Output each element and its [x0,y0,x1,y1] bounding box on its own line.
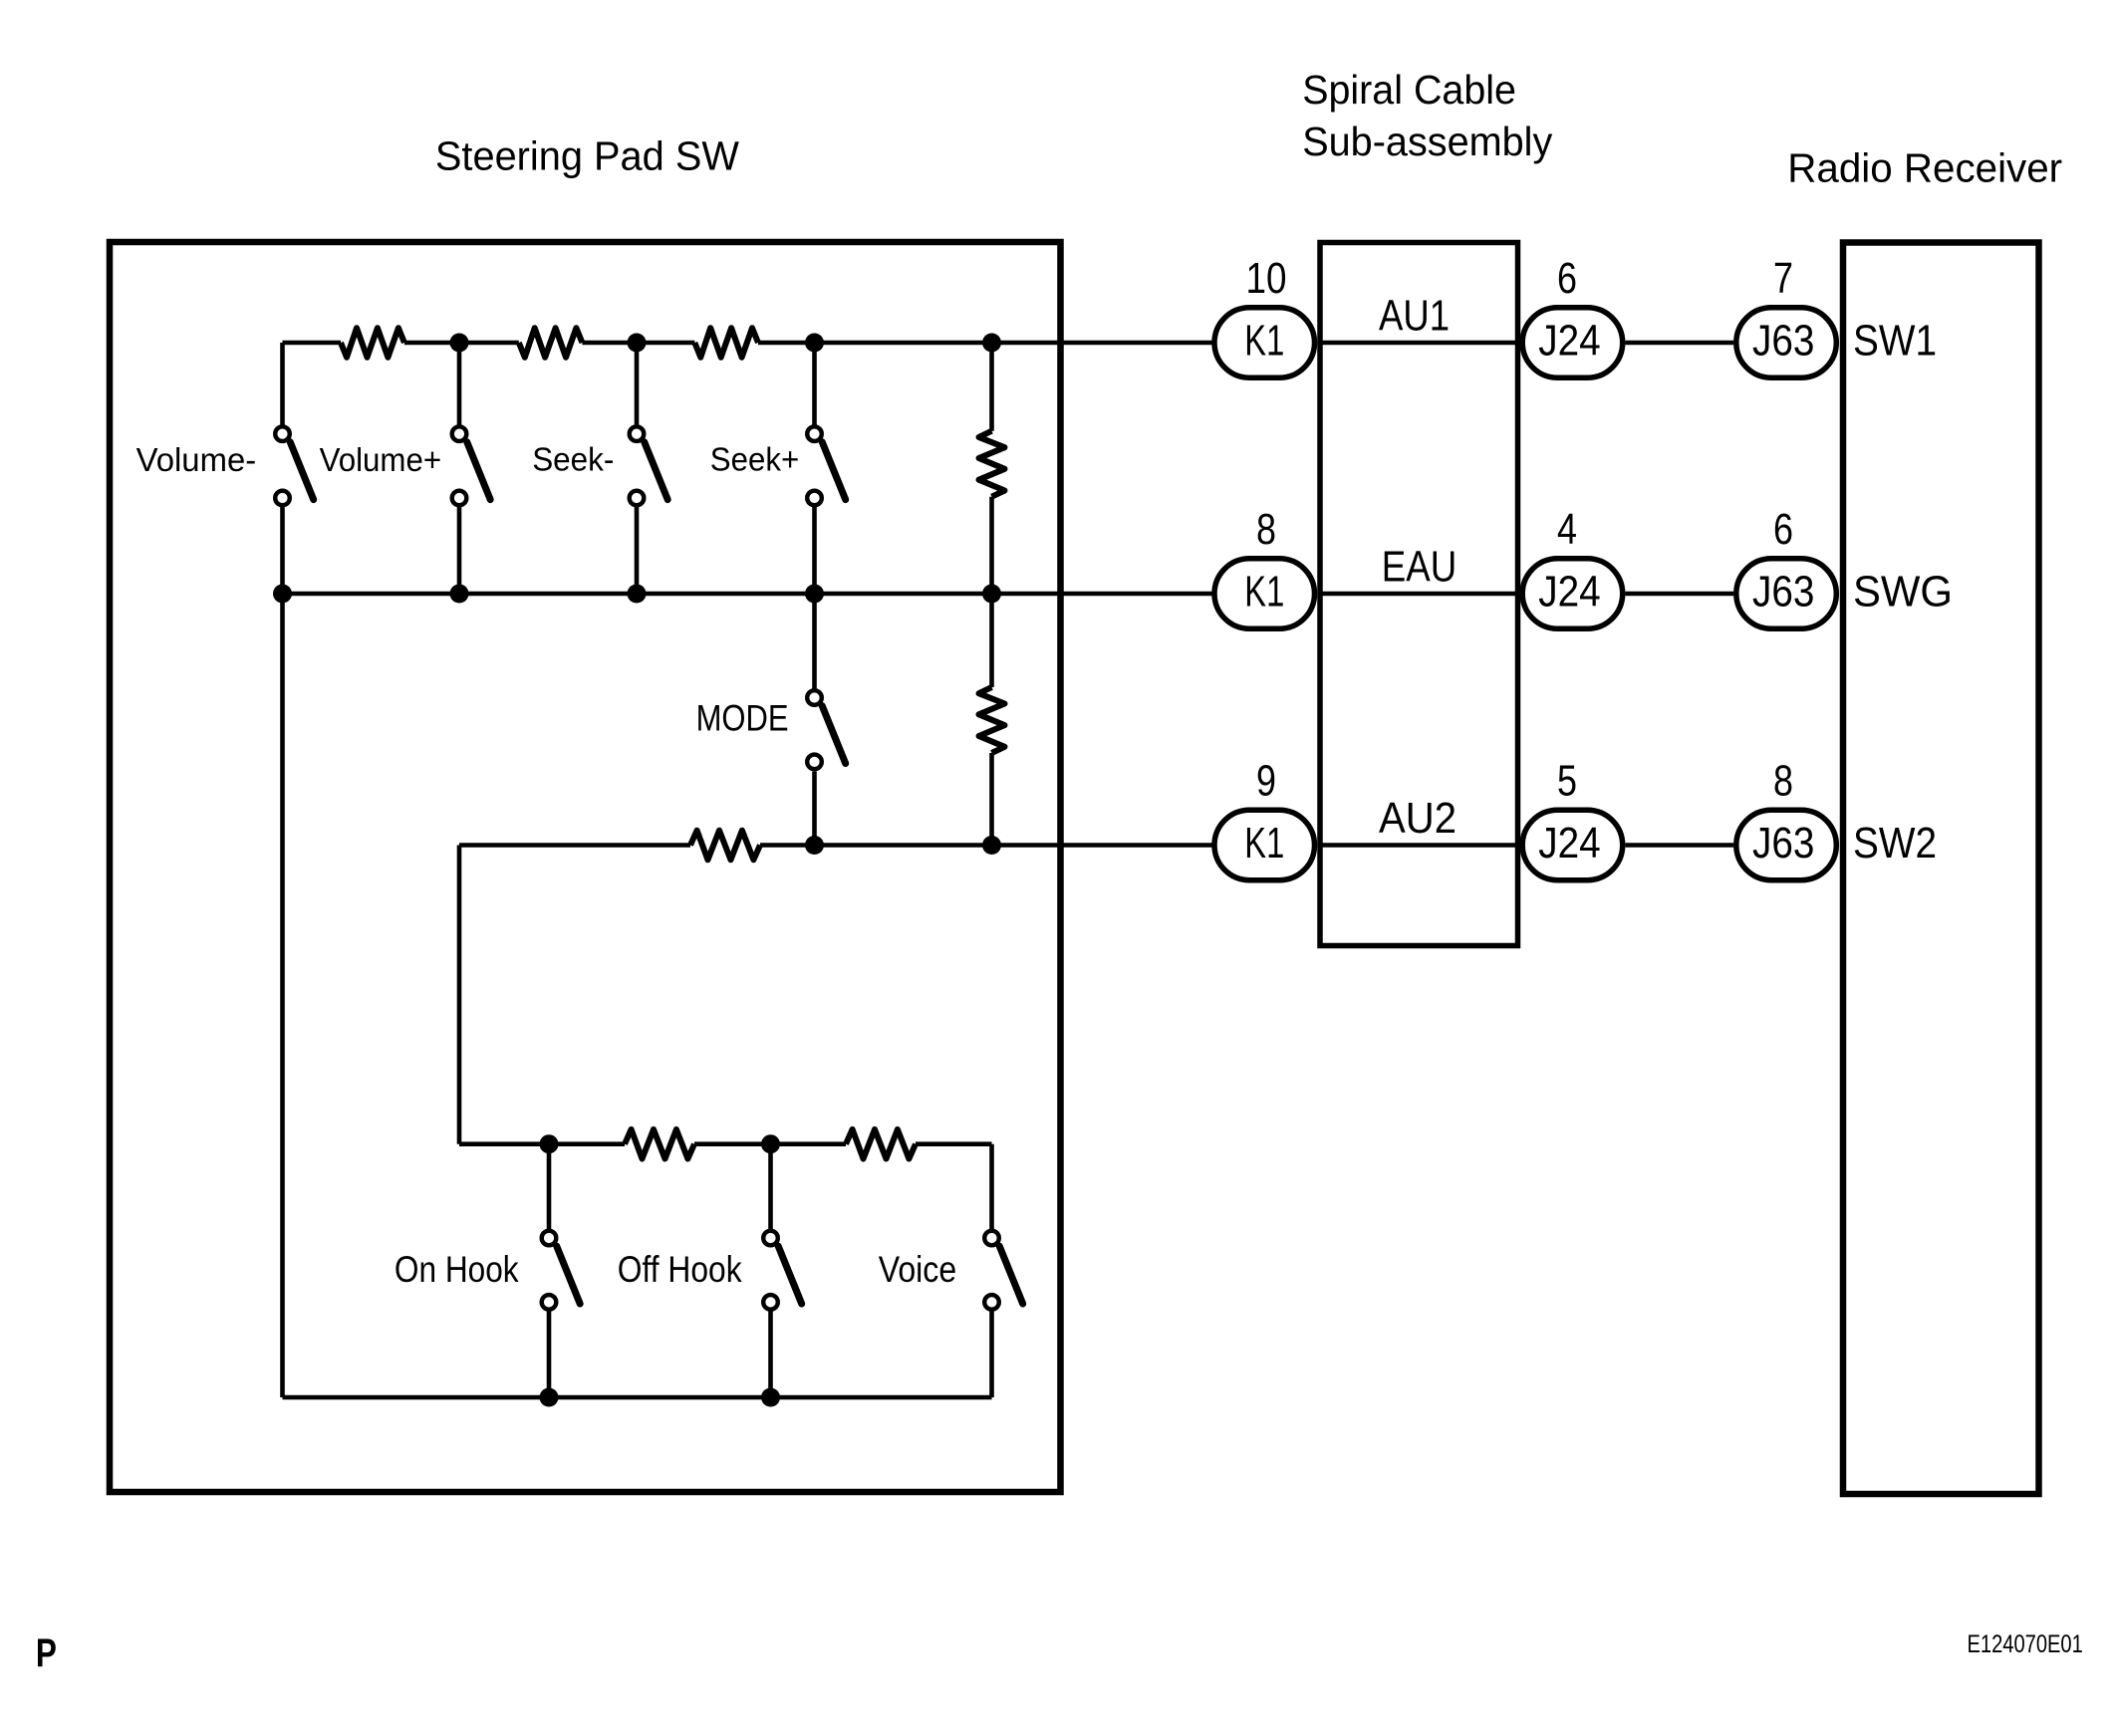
wire AU2 left corner down to hook rail [457,846,462,1144]
connector J24 (AU1) [1522,308,1623,378]
svg-text:Off Hook: Off Hook [618,1248,742,1290]
svg-text:E124070E01: E124070E01 [1968,1630,2083,1658]
svg-text:Seek-: Seek- [532,441,614,478]
svg-text:Volume+: Volume+ [320,441,442,478]
wire hook rail seg 1 [459,1141,625,1146]
svg-text:On Hook: On Hook [395,1248,519,1290]
junction dot bottom rail Off Hook [761,1388,780,1407]
wire MODE branch upper [812,594,817,690]
junction dot EAU rail at Volume- branch [273,585,292,604]
junction dot EAU rail at Seek+ branch [805,585,824,604]
wire bottom rail [283,1395,992,1400]
junction dot AU2 rail at R5 branch [982,836,1001,855]
resistor R3 (Seek- to Seek+ node) [694,328,758,358]
junction dot node Volume+ top [450,334,469,353]
box Spiral Cable Sub-assembly [1320,243,1518,946]
svg-text:4: 4 [1557,506,1577,554]
resistor R8 (Off Hook to Voice) [846,1129,916,1159]
junction dot EAU rail at Volume+ branch [450,585,469,604]
svg-text:10: 10 [1246,255,1287,303]
box Radio Receiver [1843,243,2039,1495]
svg-text:Voice: Voice [879,1248,957,1290]
svg-text:P: P [36,1631,57,1675]
wire AU1 inside spiral box [1322,341,1518,346]
junction dot hook rail On Hook [540,1134,559,1153]
svg-text:SWG: SWG [1853,569,1953,617]
wire hook rail seg 3 [916,1141,992,1146]
svg-text:J24: J24 [1538,568,1600,616]
svg-text:9: 9 [1256,758,1276,806]
svg-text:Steering Pad SW: Steering Pad SW [435,133,739,179]
wire Seek- branch lower [635,507,640,594]
wire Voice branch upper [989,1144,994,1229]
svg-text:K1: K1 [1244,317,1284,365]
wire J24 to J63 (AU1) [1626,341,1734,346]
switch Voice [984,1231,1022,1310]
junction dot EAU rail at R4/R5 branch [982,585,1001,604]
svg-text:Seek+: Seek+ [710,441,799,478]
svg-text:MODE: MODE [696,697,789,739]
wire Seek+ branch upper [812,343,817,426]
connector J63 (AU2) [1736,810,1837,880]
connector J24 (EAU) [1522,559,1623,629]
junction dot node R4 top [982,334,1001,353]
svg-text:J63: J63 [1752,317,1814,365]
wire right branch resistor to EAU [989,497,994,594]
junction dot hook rail Off Hook [761,1134,780,1153]
svg-text:Radio Receiver: Radio Receiver [1787,145,2062,191]
svg-text:Spiral Cable: Spiral Cable [1302,67,1516,113]
resistor R7 (On Hook to Off Hook) [625,1129,694,1159]
svg-text:6: 6 [1557,255,1577,303]
svg-text:Sub-assembly: Sub-assembly [1302,119,1553,164]
resistor R4 (vertical, row1-row2) [979,431,1005,497]
resistor R2 (Volume+ to Seek- node) [519,328,583,358]
svg-text:J63: J63 [1752,568,1814,616]
svg-text:K1: K1 [1244,820,1284,868]
wire Volume- branch lower / left loop down to bottom rail [280,507,285,1397]
svg-text:Volume-: Volume- [136,441,257,478]
wire Off Hook branch lower [768,1312,773,1398]
svg-text:6: 6 [1773,506,1793,554]
switch Seek+ [807,426,846,505]
wire EAU inside spiral box [1322,592,1518,597]
svg-text:K1: K1 [1244,568,1284,616]
svg-text:SW1: SW1 [1853,318,1937,366]
wire EAU rail [283,592,1212,597]
connector K1 (AU2) [1214,810,1315,880]
svg-text:AU1: AU1 [1379,293,1450,341]
connector J63 (AU1) [1736,308,1837,378]
box Steering Pad SW [110,242,1061,1492]
connector J63 (EAU) [1736,559,1837,629]
wire J24 to J63 (AU2) [1626,843,1734,848]
wire top rail seg 2 [404,341,519,346]
wire right branch row1 to resistor [989,343,994,431]
wire Voice branch lower [989,1312,994,1398]
wire J24 to J63 (EAU) [1626,592,1734,597]
wire Volume+ branch upper [457,343,462,426]
wire On Hook branch upper [547,1144,552,1229]
connector J24 (AU2) [1522,810,1623,880]
resistor R1 (Volume- to Volume+ node) [341,328,404,358]
wire top rail seg 3 [582,341,694,346]
svg-text:J24: J24 [1538,820,1600,868]
svg-text:SW2: SW2 [1853,820,1937,868]
wire Volume+ branch lower [457,507,462,594]
wire MODE branch lower [812,772,817,846]
svg-text:AU2: AU2 [1379,795,1456,843]
switch Volume+ [452,426,491,505]
wire AU2 inside spiral box [1322,843,1518,848]
switch Seek- [630,426,668,505]
wire AU2 rail seg 2 to K1 [760,843,1212,848]
wire Seek+ branch lower [812,507,817,594]
wire On Hook branch lower [547,1312,552,1398]
svg-text:J24: J24 [1538,317,1600,365]
connector K1 (AU1) [1214,308,1315,378]
wire right branch resistor to AU2 [989,753,994,846]
connector K1 (EAU) [1214,559,1315,629]
switch On Hook [542,1231,581,1310]
switch Off Hook [763,1231,802,1310]
svg-text:EAU: EAU [1382,544,1457,592]
svg-text:J63: J63 [1752,820,1814,868]
switch Volume- [275,426,314,505]
junction dot node Seek- top [628,334,647,353]
wire Volume- branch upper [280,343,285,426]
svg-text:7: 7 [1773,255,1793,303]
junction dot node Seek+ top [805,334,824,353]
resistor R6 (AU2 rail) [690,831,760,861]
svg-text:8: 8 [1773,758,1793,806]
wire Off Hook branch upper [768,1144,773,1229]
junction dot EAU rail at Seek- branch [628,585,647,604]
junction dot bottom rail On Hook [540,1388,559,1407]
wire top rail stub from corner [283,341,342,346]
switch MODE [807,690,846,769]
svg-text:8: 8 [1256,506,1276,554]
resistor R5 (vertical, row2-row3) [979,687,1005,753]
wire Seek- branch upper [635,343,640,426]
wire right branch EAU down [989,594,994,687]
wire hook rail seg 2 [694,1141,846,1146]
svg-text:5: 5 [1557,758,1577,806]
junction dot AU2 rail at MODE branch [805,836,824,855]
wire top rail seg 4 to K1 [758,341,1212,346]
wire AU2 rail seg 1 [459,843,690,848]
